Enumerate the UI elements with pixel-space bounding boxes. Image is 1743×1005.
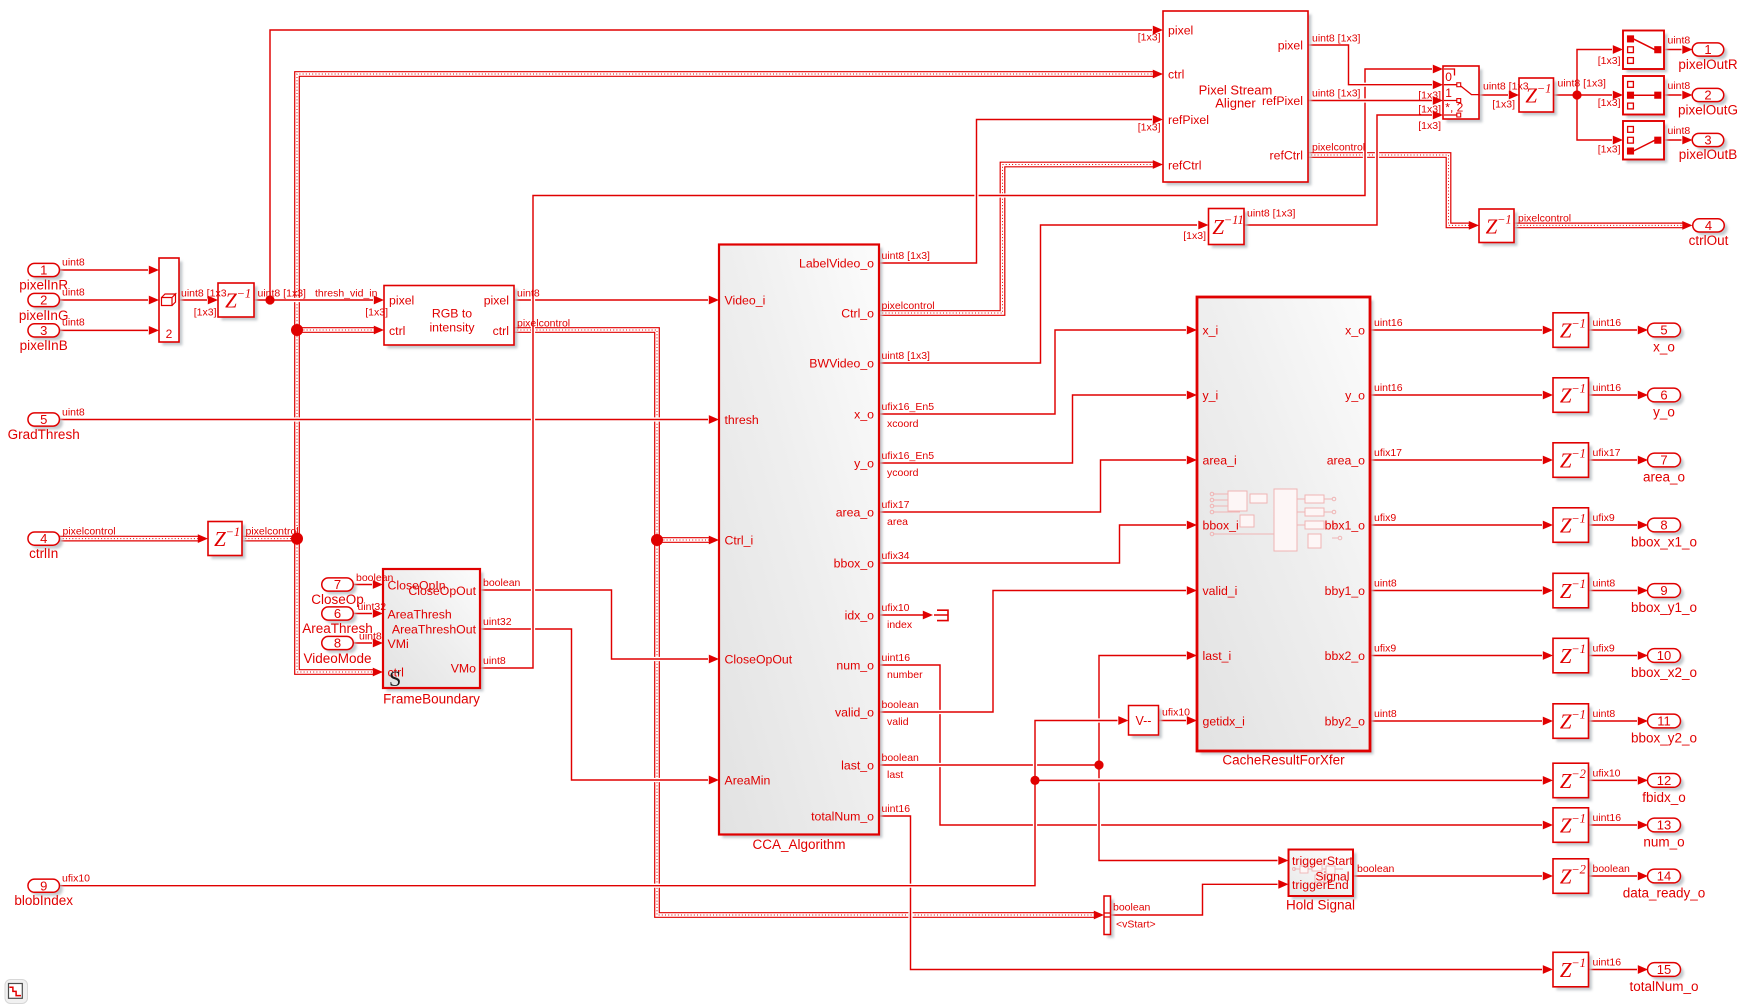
svg-text:bbox_x2_o: bbox_x2_o bbox=[1631, 665, 1697, 680]
wire delay row y=460 to outport bbox=[1589, 456, 1648, 465]
svg-text:Z: Z bbox=[1560, 710, 1572, 734]
inport 9 blobIndex bbox=[14, 878, 73, 908]
wire bus ctrlOut Z-1 to outport 4 bbox=[1514, 221, 1693, 230]
wire FrameBoundary VMo to switch control bbox=[480, 65, 1443, 668]
svg-text:uint16: uint16 bbox=[1593, 812, 1622, 824]
junction on pixelcontrol bus at ctrlIn feed bbox=[291, 533, 303, 545]
svg-text:13: 13 bbox=[1657, 818, 1671, 833]
outport 1 pixelOutR bbox=[1678, 42, 1738, 72]
RGB to intensity block bbox=[384, 286, 517, 349]
svg-text:area: area bbox=[887, 516, 908, 528]
wire CCA valid_o to Cache valid_i bbox=[879, 586, 1197, 712]
svg-text:7: 7 bbox=[334, 577, 341, 592]
svg-text:bbx1_o: bbx1_o bbox=[1325, 518, 1366, 532]
wire vStart selector out to Hold Signal triggerEnd bbox=[1110, 880, 1289, 915]
svg-text:Z: Z bbox=[1560, 644, 1572, 668]
wire delay row y=525 to outport bbox=[1589, 521, 1648, 530]
svg-text:Z: Z bbox=[1560, 814, 1572, 838]
svg-text:Aligner: Aligner bbox=[1215, 96, 1256, 111]
svg-text:V--: V-- bbox=[1136, 714, 1152, 728]
wire selector G out to pixelOutG bbox=[1664, 91, 1693, 100]
wire pixelInR to concat bbox=[60, 266, 160, 275]
wire Cache output row y=330 to delay bbox=[1370, 326, 1553, 335]
wire V-- out to Cache getidx_i bbox=[1159, 716, 1198, 725]
svg-text:8: 8 bbox=[334, 636, 341, 651]
wire CCA LabelVideo_o to Aligner refPixel bbox=[879, 115, 1163, 263]
Pixel Stream Aligner block bbox=[1163, 11, 1311, 185]
svg-text:area_i: area_i bbox=[1203, 453, 1237, 467]
svg-text:FrameBoundary: FrameBoundary bbox=[383, 692, 480, 707]
junction on pixelcontrol bus at CCA Ctrl_i branch bbox=[651, 534, 663, 546]
delay Z-11 bbox=[1209, 209, 1248, 248]
svg-text:x_o: x_o bbox=[1345, 323, 1365, 337]
svg-text:8: 8 bbox=[1660, 518, 1667, 533]
svg-text:boolean: boolean bbox=[1113, 901, 1151, 913]
svg-text:[1x3]: [1x3] bbox=[1598, 55, 1621, 67]
svg-text:Video_i: Video_i bbox=[725, 293, 766, 307]
svg-text:ctrl: ctrl bbox=[493, 324, 509, 338]
svg-text:uint8: uint8 bbox=[62, 406, 85, 418]
wire Aligner pixel out to switch input 1 bbox=[1308, 45, 1443, 89]
wire VideoMode inport to FrameBoundary bbox=[353, 639, 383, 648]
svg-text:uint16: uint16 bbox=[1374, 317, 1403, 329]
svg-text:7: 7 bbox=[1660, 453, 1667, 468]
wire AreaThresh inport to FrameBoundary bbox=[353, 609, 383, 618]
svg-text:bby2_o: bby2_o bbox=[1325, 714, 1366, 728]
delay Z-1 row y=525 bbox=[1553, 508, 1592, 546]
svg-text:last_i: last_i bbox=[1203, 649, 1232, 663]
wire Cache output row y=655.5 to delay bbox=[1370, 651, 1553, 660]
svg-text:num_o: num_o bbox=[836, 658, 874, 672]
svg-text:uint8 [1x3]: uint8 [1x3] bbox=[1312, 88, 1361, 100]
svg-text:[1x3]: [1x3] bbox=[1418, 120, 1441, 132]
svg-text:y_o: y_o bbox=[854, 456, 874, 470]
svg-text:ufix9: ufix9 bbox=[1593, 512, 1615, 524]
svg-text:uint16: uint16 bbox=[1374, 382, 1403, 394]
wire selector R out to pixelOutR bbox=[1664, 45, 1693, 54]
svg-text:ycoord: ycoord bbox=[887, 467, 919, 479]
svg-text:index: index bbox=[887, 619, 913, 631]
delay Z-1 row y=590.5 bbox=[1553, 573, 1592, 611]
wire Cache output row y=395 to delay bbox=[1370, 391, 1553, 400]
svg-text:Z: Z bbox=[1486, 214, 1498, 238]
svg-text:VMo: VMo bbox=[451, 661, 476, 675]
delay Z-1 after switch bbox=[1519, 78, 1557, 115]
wire Aligner refPixel out to switch input 2 bbox=[1308, 96, 1443, 105]
delay Z-2 row y=780.4 bbox=[1553, 763, 1592, 801]
svg-text:ctrlOut: ctrlOut bbox=[1689, 233, 1729, 248]
svg-text:pixelInR: pixelInR bbox=[19, 278, 68, 293]
sample time legend badge bbox=[5, 980, 28, 1004]
svg-text:area_o: area_o bbox=[1327, 453, 1365, 467]
wire CCA area_o to Cache area_i bbox=[879, 456, 1197, 512]
svg-text:number: number bbox=[887, 669, 923, 681]
svg-text:bbox_i: bbox_i bbox=[1203, 518, 1239, 532]
svg-text:uint8: uint8 bbox=[483, 655, 506, 667]
terminator on idx_o bbox=[934, 610, 948, 620]
wire concat to Z-1 bbox=[179, 296, 218, 305]
svg-text:AreaThreshOut: AreaThreshOut bbox=[392, 622, 477, 636]
wire bus branch to RGB ctrl input bbox=[297, 326, 384, 335]
svg-text:ufix16_En5: ufix16_En5 bbox=[882, 450, 935, 462]
svg-text:blobIndex: blobIndex bbox=[14, 893, 73, 908]
wire Cache output row y=721 to delay bbox=[1370, 717, 1553, 726]
wire bottom delay row y=780.4 to outport bbox=[1589, 776, 1648, 785]
svg-text:uint16: uint16 bbox=[1593, 382, 1622, 394]
wire delay row y=655.5 to outport bbox=[1589, 651, 1648, 660]
delay Z-1 row y=969.5 bbox=[1553, 952, 1592, 990]
svg-text:intensity: intensity bbox=[429, 321, 475, 335]
svg-text:ufix10: ufix10 bbox=[1162, 707, 1190, 719]
svg-text:AreaMin: AreaMin bbox=[725, 773, 771, 787]
wire CCA num_o down to num Z-1 bbox=[879, 665, 1553, 829]
svg-text:bbox_y2_o: bbox_y2_o bbox=[1631, 731, 1697, 746]
svg-text:0: 0 bbox=[1445, 70, 1452, 84]
svg-text:ctrl: ctrl bbox=[389, 324, 405, 338]
svg-text:Z: Z bbox=[1560, 579, 1572, 603]
svg-text:uint8: uint8 bbox=[1593, 578, 1616, 590]
svg-text:Z: Z bbox=[1560, 449, 1572, 473]
svg-text:9: 9 bbox=[40, 878, 47, 893]
svg-text:y_i: y_i bbox=[1203, 388, 1219, 402]
svg-text:bbox_y1_o: bbox_y1_o bbox=[1631, 600, 1697, 615]
svg-text:Z: Z bbox=[1560, 514, 1572, 538]
svg-text:thresh_vid_in: thresh_vid_in bbox=[315, 288, 378, 300]
svg-text:last_o: last_o bbox=[841, 758, 874, 772]
wire pixelInB to concat bbox=[60, 326, 160, 335]
svg-text:ufix34: ufix34 bbox=[882, 550, 910, 562]
svg-text:[1x3]: [1x3] bbox=[1418, 104, 1441, 116]
svg-text:uint8 [1x3: uint8 [1x3 bbox=[181, 288, 227, 300]
svg-text:boolean: boolean bbox=[882, 699, 920, 711]
wire blobIndex to V-- converter, branch to fbidx Z-2 bbox=[60, 716, 1554, 886]
wire Cache output row y=590.5 to delay bbox=[1370, 586, 1553, 595]
inport 5 GradThresh bbox=[8, 412, 80, 442]
svg-text:uint8 [1x3]: uint8 [1x3] bbox=[1312, 33, 1361, 45]
svg-text:uint8: uint8 bbox=[62, 287, 85, 299]
svg-text:pixel: pixel bbox=[484, 293, 509, 307]
delay Z-1 row y=655.5 bbox=[1553, 638, 1592, 676]
svg-text:refPixel: refPixel bbox=[1168, 113, 1209, 127]
inport 1 pixelInR bbox=[19, 263, 68, 293]
svg-text:x_o: x_o bbox=[1653, 340, 1675, 355]
svg-text:triggerStart: triggerStart bbox=[1292, 854, 1353, 868]
svg-text:valid: valid bbox=[887, 716, 909, 728]
wire bus main pixelcontrol: up left column, across top to Aligner ctrl, down to FrameBoundary ctrl bbox=[297, 70, 1163, 677]
svg-text:−1: −1 bbox=[1571, 642, 1586, 656]
svg-text:6: 6 bbox=[1660, 388, 1667, 403]
svg-text:3: 3 bbox=[1704, 133, 1711, 148]
svg-text:pixelcontrol: pixelcontrol bbox=[1518, 213, 1571, 225]
svg-text:CloseOpOut: CloseOpOut bbox=[408, 584, 476, 598]
svg-text:[1x3]: [1x3] bbox=[1598, 97, 1621, 109]
svg-text:11: 11 bbox=[1657, 714, 1671, 729]
svg-text:boolean: boolean bbox=[1593, 863, 1631, 875]
svg-text:CloseOpOut: CloseOpOut bbox=[725, 652, 793, 666]
svg-text:[1x3]: [1x3] bbox=[194, 306, 217, 318]
delay Z-1 after ctrlIn bbox=[208, 522, 245, 559]
svg-text:data_ready_o: data_ready_o bbox=[1623, 886, 1706, 901]
svg-text:6: 6 bbox=[334, 606, 341, 621]
svg-text:refCtrl: refCtrl bbox=[1168, 158, 1201, 172]
svg-text:−1: −1 bbox=[1571, 708, 1586, 722]
outport 8 bbox_x1_o bbox=[1631, 518, 1697, 550]
svg-text:Ctrl_o: Ctrl_o bbox=[841, 306, 874, 320]
svg-text:fbidx_o: fbidx_o bbox=[1642, 790, 1686, 805]
delay Z-1 row y=395 bbox=[1553, 378, 1592, 416]
svg-text:x_o: x_o bbox=[854, 407, 874, 421]
inport 4 ctrlIn bbox=[28, 531, 63, 561]
svg-text:pixel: pixel bbox=[1278, 38, 1303, 52]
svg-text:pixelInB: pixelInB bbox=[20, 338, 68, 353]
svg-text:[1x3]: [1x3] bbox=[1183, 230, 1206, 242]
outport 11 bbox_y2_o bbox=[1631, 714, 1697, 746]
wire CCA totalNum_o down to totalNum Z-1 bbox=[879, 816, 1553, 974]
wire bus CCA Ctrl_o to Aligner refCtrl bbox=[879, 160, 1163, 313]
wire CCA BWVideo_o to Z-11 bbox=[879, 221, 1209, 363]
svg-text:pixel: pixel bbox=[389, 293, 414, 307]
svg-text:y_o: y_o bbox=[1653, 405, 1675, 420]
svg-text:GradThresh: GradThresh bbox=[8, 427, 80, 442]
svg-text:1: 1 bbox=[1445, 86, 1452, 100]
svg-text:uint8 [1x3]: uint8 [1x3] bbox=[882, 350, 931, 362]
svg-text:CCA_Algorithm: CCA_Algorithm bbox=[752, 837, 845, 852]
svg-text:boolean: boolean bbox=[483, 577, 521, 589]
svg-text:uint8: uint8 bbox=[517, 288, 540, 300]
outport 6 y_o bbox=[1648, 388, 1684, 420]
svg-text:boolean: boolean bbox=[356, 572, 394, 584]
svg-text:ufix10: ufix10 bbox=[1593, 767, 1621, 779]
svg-text:−11: −11 bbox=[1224, 213, 1244, 227]
svg-text:totalNum_o: totalNum_o bbox=[1629, 979, 1698, 994]
inport 8 VideoMode bbox=[303, 636, 371, 666]
wire Hold Signal out to data_ready Z-2 bbox=[1353, 872, 1553, 881]
wire bus branch to CCA Ctrl_i bbox=[657, 536, 719, 545]
svg-text:−1: −1 bbox=[237, 287, 252, 301]
svg-text:uint8: uint8 bbox=[62, 256, 85, 268]
svg-text:uint8: uint8 bbox=[1374, 578, 1397, 590]
svg-text:ufix17: ufix17 bbox=[1374, 447, 1402, 459]
svg-text:last: last bbox=[887, 769, 903, 781]
multiport switch bbox=[1443, 66, 1482, 122]
wire CCA y_o to Cache y_i bbox=[879, 391, 1197, 463]
svg-text:−1: −1 bbox=[226, 525, 241, 539]
svg-text:Z: Z bbox=[225, 289, 237, 313]
svg-text:LabelVideo_o: LabelVideo_o bbox=[799, 256, 874, 270]
outport 4 ctrlOut bbox=[1689, 218, 1729, 248]
selector B bbox=[1623, 121, 1667, 163]
wire Z-1 out to three selectors bbox=[1554, 45, 1624, 144]
selector R bbox=[1623, 31, 1667, 73]
outport 7 area_o bbox=[1643, 453, 1685, 485]
wire delay row y=395 to outport bbox=[1589, 391, 1648, 400]
wire pixelInG to concat bbox=[60, 296, 160, 305]
junction on pixelcontrol bus at RGB ctrl branch bbox=[291, 324, 303, 336]
svg-text:uint16: uint16 bbox=[882, 803, 911, 815]
svg-text:−1: −1 bbox=[1571, 512, 1586, 526]
svg-text:Z: Z bbox=[1560, 319, 1572, 343]
svg-text:getidx_i: getidx_i bbox=[1203, 714, 1245, 728]
svg-text:−1: −1 bbox=[1537, 82, 1552, 96]
svg-text:idx_o: idx_o bbox=[845, 608, 875, 622]
svg-text:uint16: uint16 bbox=[1593, 317, 1622, 329]
svg-text:2: 2 bbox=[40, 293, 47, 308]
svg-text:ufix17: ufix17 bbox=[882, 499, 910, 511]
svg-text:[1x3]: [1x3] bbox=[1138, 122, 1161, 134]
svg-text:BWVideo_o: BWVideo_o bbox=[809, 356, 874, 370]
svg-text:area_o: area_o bbox=[1643, 470, 1685, 485]
svg-text:Z: Z bbox=[214, 527, 226, 551]
wire CCA last_o to Cache last_i and Hold Signal triggerStart bbox=[879, 651, 1289, 865]
svg-text:bby1_o: bby1_o bbox=[1325, 584, 1366, 598]
svg-text:num_o: num_o bbox=[1643, 835, 1684, 850]
outport 10 bbox_x2_o bbox=[1631, 648, 1697, 680]
svg-text:uint8 [1x3]: uint8 [1x3] bbox=[1558, 78, 1607, 90]
svg-text:uint8 [1x3]: uint8 [1x3] bbox=[1247, 208, 1296, 220]
outport 2 pixelOutG bbox=[1678, 88, 1738, 118]
svg-text:uint8: uint8 bbox=[62, 317, 85, 329]
wire bottom delay row y=969.5 to outport bbox=[1589, 965, 1648, 974]
svg-text:ufix16_En5: ufix16_En5 bbox=[882, 401, 935, 413]
svg-text:−2: −2 bbox=[1571, 863, 1586, 877]
delay Z-2 row y=876 bbox=[1553, 859, 1592, 897]
outport 13 num_o bbox=[1643, 818, 1684, 850]
inport 2 pixelInG bbox=[19, 293, 69, 323]
wire GradThresh to CCA thresh bbox=[60, 415, 719, 424]
matrix concatenate block bbox=[159, 258, 182, 345]
svg-text:Hold Signal: Hold Signal bbox=[1286, 898, 1355, 913]
delay Z-1 row y=721 bbox=[1553, 704, 1592, 742]
svg-text:uint8 [1x3]: uint8 [1x3] bbox=[882, 250, 931, 262]
svg-text:9: 9 bbox=[1660, 583, 1667, 598]
svg-text:uint8 [1x3]: uint8 [1x3] bbox=[258, 288, 307, 300]
svg-text:Z: Z bbox=[1560, 384, 1572, 408]
wire delay row y=330 to outport bbox=[1589, 326, 1648, 335]
wire delay row y=590.5 to outport bbox=[1589, 586, 1648, 595]
delay Z-1 row y=825 bbox=[1553, 808, 1592, 846]
svg-text:uint16: uint16 bbox=[1593, 957, 1622, 969]
inport 6 AreaThresh bbox=[302, 606, 373, 636]
outport 3 pixelOutB bbox=[1679, 133, 1738, 162]
svg-text:xcoord: xcoord bbox=[887, 418, 919, 430]
svg-text:ufix9: ufix9 bbox=[1593, 643, 1615, 655]
svg-text:12: 12 bbox=[1657, 773, 1671, 788]
svg-text:uint8: uint8 bbox=[1374, 708, 1397, 720]
svg-text:14: 14 bbox=[1657, 869, 1671, 884]
svg-text:[1x3]: [1x3] bbox=[1138, 32, 1161, 44]
wire bottom delay row y=876 to outport bbox=[1589, 872, 1648, 881]
svg-text:pixelOutB: pixelOutB bbox=[1679, 147, 1738, 162]
CCA_Algorithm subsystem bbox=[719, 245, 882, 853]
svg-text:<vStart>: <vStart> bbox=[1116, 918, 1156, 930]
svg-text:−2: −2 bbox=[1571, 767, 1586, 781]
svg-text:pixelOutR: pixelOutR bbox=[1678, 57, 1738, 72]
svg-text:Z: Z bbox=[1212, 215, 1224, 239]
svg-text:ctrlIn: ctrlIn bbox=[29, 546, 58, 561]
svg-text:−1: −1 bbox=[1571, 812, 1586, 826]
svg-text:1: 1 bbox=[40, 263, 47, 278]
svg-text:−1: −1 bbox=[1571, 317, 1586, 331]
svg-text:2: 2 bbox=[166, 327, 173, 341]
wire Cache output row y=460 to delay bbox=[1370, 456, 1553, 465]
wire CCA bbox_o to Cache bbox_i bbox=[879, 521, 1197, 563]
svg-text:boolean: boolean bbox=[1357, 863, 1395, 875]
svg-text:VideoMode: VideoMode bbox=[303, 651, 371, 666]
outport 9 bbox_y1_o bbox=[1631, 583, 1697, 615]
svg-text:10: 10 bbox=[1657, 648, 1671, 663]
svg-text:CloseOp: CloseOp bbox=[311, 592, 364, 607]
svg-text:ufix9: ufix9 bbox=[1374, 643, 1396, 655]
svg-text:ctrl: ctrl bbox=[1168, 67, 1184, 81]
svg-text:[1x3]: [1x3] bbox=[1418, 90, 1441, 102]
svg-text:Z: Z bbox=[1560, 958, 1572, 982]
svg-text:−1: −1 bbox=[1571, 447, 1586, 461]
svg-text:2: 2 bbox=[1704, 88, 1711, 103]
svg-text:uint8: uint8 bbox=[1668, 80, 1691, 92]
wire thresh_vid_in: Z-1 out to RGB pixel, branch up to Aligner pixel bbox=[254, 26, 1163, 305]
svg-text:1: 1 bbox=[1704, 42, 1711, 57]
svg-text:4: 4 bbox=[1705, 218, 1712, 233]
svg-text:uint16: uint16 bbox=[882, 652, 911, 664]
svg-text:VMi: VMi bbox=[388, 637, 409, 651]
inport 3 pixelInB bbox=[20, 323, 68, 353]
svg-text:−1: −1 bbox=[1571, 956, 1586, 970]
wire CCA x_o to Cache x_i bbox=[879, 326, 1197, 414]
delay Z-1 row y=330 bbox=[1553, 313, 1592, 351]
FrameBoundary subsystem bbox=[383, 569, 483, 707]
svg-text:boolean: boolean bbox=[882, 752, 920, 764]
wire bus Z-1 out to main vertical pixelcontrol bus bbox=[242, 536, 297, 542]
svg-text:4: 4 bbox=[40, 531, 47, 546]
V-- data type conversion block bbox=[1129, 706, 1162, 739]
wire RGB pixel out to CCA Video_i bbox=[514, 296, 719, 305]
svg-text:pixelcontrol: pixelcontrol bbox=[882, 300, 935, 312]
svg-text:[1x3]: [1x3] bbox=[1598, 144, 1621, 156]
svg-text:AreaThresh: AreaThresh bbox=[388, 607, 452, 621]
bus selector vStart bbox=[1104, 896, 1114, 938]
svg-text:uint8: uint8 bbox=[1668, 35, 1691, 47]
svg-text:bbox_x1_o: bbox_x1_o bbox=[1631, 535, 1697, 550]
wire FrameBoundary AreaThreshOut to CCA AreaMin bbox=[480, 629, 719, 784]
svg-text:uint8: uint8 bbox=[1668, 125, 1691, 137]
wire delay row y=721 to outport bbox=[1589, 717, 1648, 726]
svg-text:Signal: Signal bbox=[1315, 869, 1349, 883]
outport 12 fbidx_o bbox=[1642, 773, 1686, 805]
wire Cache output row y=525 to delay bbox=[1370, 521, 1553, 530]
svg-text:ufix17: ufix17 bbox=[1593, 447, 1621, 459]
wire switch out to Z-1 bbox=[1479, 91, 1519, 100]
wire selector B out to pixelOutB bbox=[1664, 136, 1693, 145]
wire bottom delay row y=825 to outport bbox=[1589, 821, 1648, 830]
svg-text:bbox_o: bbox_o bbox=[834, 556, 875, 570]
svg-text:area_o: area_o bbox=[836, 505, 874, 519]
svg-text:RGB to: RGB to bbox=[432, 307, 472, 321]
svg-text:Ctrl_i: Ctrl_i bbox=[725, 533, 754, 547]
wire FrameBoundary CloseOpOut to CCA CloseOpOut bbox=[480, 590, 719, 663]
inport 7 CloseOp bbox=[311, 577, 364, 607]
wire CCA idx_o to terminator bbox=[879, 611, 933, 620]
svg-text:[1x3]: [1x3] bbox=[1492, 99, 1515, 111]
svg-text:[1x3]: [1x3] bbox=[365, 306, 388, 318]
wire bus Aligner refCtrl out to ctrlOut Z-1 bbox=[1308, 155, 1479, 230]
svg-text:thresh: thresh bbox=[725, 413, 759, 427]
outport 5 x_o bbox=[1648, 323, 1684, 355]
wire bus ctrlIn to Z-1 bbox=[60, 534, 209, 543]
svg-text:15: 15 bbox=[1657, 962, 1671, 977]
svg-text:pixelOutG: pixelOutG bbox=[1678, 103, 1738, 118]
svg-text:uint8 [1x3: uint8 [1x3 bbox=[1483, 81, 1529, 93]
svg-text:5: 5 bbox=[1660, 323, 1667, 338]
